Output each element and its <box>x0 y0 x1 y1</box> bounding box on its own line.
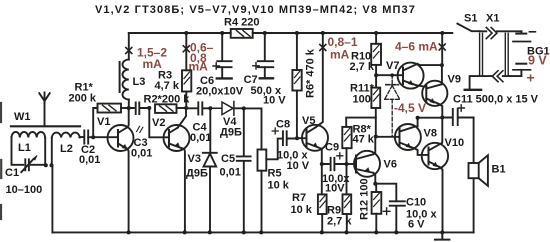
measuring break x output stage <box>439 44 445 50</box>
svg-text:L3: L3 <box>133 76 146 88</box>
svg-text:100: 100 <box>353 94 371 106</box>
svg-text:200 k: 200 k <box>69 93 97 105</box>
node R7 rail junction <box>320 230 324 234</box>
svg-text:R7: R7 <box>292 192 306 204</box>
transistor V8 <box>395 124 421 150</box>
svg-text:C1: C1 <box>5 167 19 179</box>
measuring break x V5 collector <box>320 45 326 51</box>
node V7 base junction <box>374 73 378 77</box>
wire V3 to rail <box>209 167 211 233</box>
svg-text:-4,5 V: -4,5 V <box>394 101 426 115</box>
transistor V1 <box>108 125 134 151</box>
ferrite core bar <box>11 125 80 127</box>
svg-text:V1: V1 <box>97 116 110 128</box>
svg-text:V3: V3 <box>188 153 201 165</box>
wire R7 to rail <box>321 214 323 232</box>
wire to plug <box>480 30 487 32</box>
node V6 emitter junction <box>373 182 377 186</box>
node R9 rail junction <box>345 230 349 234</box>
node V6 base junction <box>345 162 349 166</box>
wire R9 to rail <box>346 214 348 232</box>
C10 polarity plus <box>383 208 390 215</box>
resistor R10 <box>371 44 381 65</box>
wire V9 collector <box>441 65 443 84</box>
battery BG1 <box>520 31 522 33</box>
wire R8 branch <box>346 118 376 127</box>
wire V9 emitter to output node <box>439 104 443 118</box>
capacitor C3 <box>129 103 150 115</box>
diode stabilizer dashed <box>390 73 394 77</box>
node V8 base junction <box>374 135 378 139</box>
svg-text:10 k: 10 k <box>268 180 290 192</box>
svg-text:R6* 470 k: R6* 470 k <box>305 48 317 98</box>
connector X1 right shell <box>505 33 508 76</box>
svg-text:Д9Б: Д9Б <box>186 168 208 180</box>
node V5 collector rail junction <box>321 31 325 35</box>
transistor V6 <box>354 151 380 177</box>
wire to V5 base <box>297 137 306 139</box>
svg-text:V2: V2 <box>152 117 165 129</box>
resistor R12 <box>372 192 382 214</box>
wire V6 collector <box>373 137 375 155</box>
transistor V2 <box>164 125 190 151</box>
wire rail to C6 <box>221 33 223 60</box>
node V5 base junction <box>295 136 299 140</box>
node V1 emitter rail junction <box>127 230 131 234</box>
wire V7 base <box>376 74 403 76</box>
C6 polarity plus <box>213 63 219 69</box>
svg-text:9 V: 9 V <box>528 54 547 68</box>
wire R10 to node <box>375 65 377 88</box>
svg-text:S1: S1 <box>464 13 477 25</box>
C3 leader ticks <box>137 126 143 132</box>
svg-text:L2: L2 <box>60 143 73 155</box>
wire speaker branch <box>473 118 475 233</box>
wire V1 emitter to rail <box>127 149 129 233</box>
svg-text:L1: L1 <box>18 142 31 154</box>
svg-text:V7: V7 <box>386 60 399 72</box>
wire to V6 base <box>347 163 357 165</box>
wire V2 emitter to rail <box>183 149 186 232</box>
wire R10 top leg <box>375 33 377 44</box>
wire L3 branch with break <box>128 33 130 108</box>
svg-text:10 V: 10 V <box>263 95 286 107</box>
node V1 collector junction <box>127 106 131 110</box>
svg-text:R4 220: R4 220 <box>224 17 259 29</box>
svg-text:0,01: 0,01 <box>131 148 152 160</box>
svg-text:C9: C9 <box>325 142 339 154</box>
svg-text:2,7 k: 2,7 k <box>350 61 375 73</box>
inductor L3 <box>123 60 129 100</box>
transistor V9 <box>422 81 447 106</box>
wire V8 collector diag <box>415 125 418 128</box>
transistor V7 <box>398 63 424 89</box>
resistor R7 <box>318 194 327 214</box>
node C6 rail junction <box>220 31 224 35</box>
node V2 collector junction <box>184 106 188 110</box>
svg-text:C8: C8 <box>276 119 290 131</box>
wire tank to ground rail <box>51 165 53 232</box>
wire R12 to rail <box>375 214 377 233</box>
capacitor C11 <box>442 109 473 125</box>
capacitor C2 <box>84 131 88 144</box>
C8 polarity plus <box>272 128 278 134</box>
capacitor C10 <box>390 201 405 232</box>
wire R1 right leg <box>121 107 129 109</box>
svg-text:V9: V9 <box>448 74 461 86</box>
chassis ground bar <box>465 89 481 91</box>
measuring break x V1 collector <box>126 48 132 54</box>
wire rail to C7 <box>264 33 266 60</box>
diode V3 <box>203 152 217 154</box>
C9 polarity plus <box>337 153 343 159</box>
wire collector supply with break <box>441 33 443 65</box>
node C5 rail junction <box>242 230 246 234</box>
node V10 emitter rail junction <box>440 230 444 234</box>
node C7 rail junction <box>263 31 267 35</box>
C11 polarity plus <box>458 105 464 111</box>
wire V8 collector to output <box>418 118 443 127</box>
svg-text:0,01: 0,01 <box>190 132 211 144</box>
node output supply rail junction <box>440 31 444 35</box>
node C10 rail junction <box>394 230 398 234</box>
wire V5 emitter <box>321 149 323 164</box>
transistor V5 <box>302 125 328 151</box>
node detector output <box>242 106 246 110</box>
node L2 junction <box>50 163 54 167</box>
svg-text:V5: V5 <box>302 115 315 127</box>
resistor R2 <box>155 104 177 113</box>
svg-text:X1: X1 <box>486 13 499 25</box>
resistor R11 <box>371 88 380 108</box>
wire V1 collector <box>127 108 129 128</box>
svg-text:0,01: 0,01 <box>220 167 241 179</box>
measuring break x V2 collector <box>183 46 189 52</box>
svg-text:V10: V10 <box>445 137 465 149</box>
capacitor C8 <box>283 131 297 145</box>
resistor R9 <box>343 194 352 214</box>
wire L1 right leg <box>44 138 46 166</box>
wire L1 left to C1 <box>12 137 24 165</box>
svg-text:6 V: 6 V <box>408 219 425 231</box>
node R5 rail junction <box>259 230 263 234</box>
svg-text:V8: V8 <box>424 128 437 140</box>
capacitor C9 <box>322 158 347 170</box>
node V2 emitter rail junction <box>183 230 187 234</box>
node R3 rail junction <box>184 31 188 35</box>
L3 core bar <box>119 62 121 92</box>
wire R12 top leg <box>375 184 377 192</box>
diode V4 <box>210 102 234 116</box>
ground symbol <box>435 232 450 239</box>
svg-text:0,01: 0,01 <box>79 154 100 166</box>
wire L2 to C2 <box>79 136 82 138</box>
svg-text:4–6 mA: 4–6 mA <box>395 40 438 54</box>
wire R1 left leg <box>93 108 97 137</box>
battery minus label <box>529 31 535 33</box>
wire V6 emitter to C10 <box>375 184 396 202</box>
wire R9 top leg <box>346 164 348 194</box>
wire V5 collector <box>316 33 323 127</box>
node V2 base junction <box>147 106 151 110</box>
transistor V10 <box>422 143 448 169</box>
svg-text:B1: B1 <box>492 164 506 176</box>
wire R5 to rail <box>261 171 263 233</box>
svg-text:Д9Б: Д9Б <box>220 127 242 139</box>
node output <box>440 116 444 120</box>
capacitor C6 <box>217 60 231 62</box>
C7 polarity plus <box>253 63 259 69</box>
svg-text:R5: R5 <box>268 168 282 180</box>
svg-text:20,0x10V: 20,0x10V <box>196 86 244 98</box>
wire R2 right leg <box>177 107 187 109</box>
node L1/C1 junction <box>44 163 48 167</box>
scan artifacts left edge <box>0 103 2 219</box>
node R12 rail junction <box>374 230 378 234</box>
wire R5 to C8 <box>266 139 282 160</box>
svg-text:10 k: 10 k <box>291 204 313 216</box>
node V1 base junction <box>91 135 95 139</box>
svg-text:R2*200 k: R2*200 k <box>144 94 191 106</box>
resistor R6 <box>292 70 301 91</box>
node R10 rail junction <box>374 31 378 35</box>
resistor R8 <box>342 127 351 148</box>
resistor R3 <box>182 70 191 91</box>
wire R6 top leg <box>296 33 298 70</box>
resistor R4 <box>231 29 253 38</box>
svg-text:mA: mA <box>330 48 350 62</box>
wire V3 drop <box>209 108 211 153</box>
capacitor C5 <box>237 108 251 232</box>
resistor R5 <box>258 150 267 171</box>
capacitor C1 variable <box>21 159 46 172</box>
wire V10 emitter to rail <box>440 167 443 232</box>
antenna W1 <box>39 93 49 126</box>
connector X1 left shell <box>480 33 483 76</box>
node V8 collector junction <box>416 116 420 120</box>
inductor L2 <box>52 133 80 138</box>
node V3 junction <box>208 106 212 110</box>
capacitor C7 <box>258 60 274 62</box>
wire battery bottom to chassis <box>470 76 522 89</box>
wire R8 bottom leg <box>346 148 348 164</box>
svg-text:C10: C10 <box>406 197 426 209</box>
wire V2 collector <box>178 108 186 128</box>
node V7/V9 collector junction <box>440 63 444 67</box>
wire R7 top leg <box>321 164 323 194</box>
svg-text:V6: V6 <box>384 159 397 171</box>
resistor R1 <box>98 104 122 113</box>
svg-text:C11 500,0 x 15 V: C11 500,0 x 15 V <box>453 94 539 106</box>
wire V6 emitter <box>373 173 375 184</box>
svg-text:R12 100: R12 100 <box>359 178 371 220</box>
wire V7 emitter to V9 base <box>417 86 426 87</box>
capacitor C4 <box>186 102 210 114</box>
svg-text:10–100: 10–100 <box>6 184 43 196</box>
wire plug to right shell <box>497 30 522 32</box>
wire L2 left leg <box>51 138 53 166</box>
wire R11 bottom to V8 base node <box>375 108 377 137</box>
plug chevrons bottom <box>492 71 503 82</box>
wire V10 collector <box>441 118 443 143</box>
wire R3 top with break <box>185 33 187 108</box>
svg-text:10V: 10V <box>325 183 345 195</box>
wire detector node to R5 <box>244 108 262 149</box>
svg-text:47 k: 47 k <box>353 134 375 146</box>
wire top rail <box>129 32 453 34</box>
svg-text:V1,V2 ГТ308Б; V5–V7,V9,V10 МП3: V1,V2 ГТ308Б; V5–V7,V9,V10 МП39–МП42; V8… <box>95 4 416 16</box>
wire bottom rail <box>52 231 473 233</box>
svg-text:2,7 k: 2,7 k <box>327 216 352 228</box>
inductor L1 <box>12 132 46 138</box>
wire V8 emitter to V10 base <box>415 149 429 155</box>
svg-text:10 V: 10 V <box>287 160 310 172</box>
svg-text:+: + <box>527 70 535 86</box>
wire V2 base drop <box>149 108 169 137</box>
switch S1 <box>457 24 479 32</box>
svg-text:4,7 k: 4,7 k <box>155 80 180 92</box>
svg-text:C5: C5 <box>221 153 235 165</box>
speaker B1 <box>469 163 479 178</box>
wire V8 base <box>376 136 400 138</box>
wire V7 collector <box>417 64 442 65</box>
node C9 left junction <box>320 162 324 166</box>
node R6 rail junction <box>295 31 299 35</box>
wire C2 to V1 base <box>88 136 118 138</box>
plug chevrons top <box>486 28 497 39</box>
node V3 rail junction <box>208 230 212 234</box>
wire R6 bottom leg <box>296 91 298 139</box>
svg-text:W1: W1 <box>14 111 31 123</box>
